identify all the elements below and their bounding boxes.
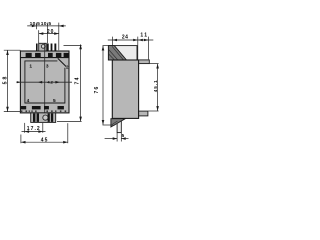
dimension 5 stem bottom xyxy=(105,133,129,142)
horizontal centerline xyxy=(16,81,72,83)
side view upper block xyxy=(108,46,137,60)
center arrow left inner xyxy=(38,81,42,84)
svg-text:76: 76 xyxy=(94,86,100,94)
front view body xyxy=(20,51,69,113)
svg-text:74: 74 xyxy=(75,76,81,84)
center arrow right inner xyxy=(55,81,59,84)
front bottom mounting tab xyxy=(31,113,56,123)
svg-text:17.2: 17.2 xyxy=(27,126,41,132)
bottom tab ribs xyxy=(33,113,53,122)
front chamfer diagonal xyxy=(58,58,66,66)
front inner face outline xyxy=(25,61,65,103)
side view upper terminal xyxy=(139,60,150,64)
svg-text:11: 11 xyxy=(140,33,148,39)
dimension 76 side height xyxy=(94,46,113,125)
svg-text:10.5: 10.5 xyxy=(41,21,52,27)
dimension 45 bottom xyxy=(21,123,68,143)
svg-text:4: 4 xyxy=(27,98,30,104)
svg-text:3: 3 xyxy=(46,63,49,69)
svg-text:5: 5 xyxy=(122,133,125,138)
svg-text:1: 1 xyxy=(29,63,32,69)
front view cap separation line xyxy=(20,57,69,59)
front bottom tick row xyxy=(21,110,66,112)
side view bottom stem xyxy=(117,119,121,133)
dimension 20 top xyxy=(39,29,59,43)
front bottom terminal pads xyxy=(21,106,64,109)
svg-text:45: 45 xyxy=(41,138,49,144)
dimension 24 side top xyxy=(108,35,154,60)
svg-text:10.5: 10.5 xyxy=(30,21,41,27)
svg-text:5: 5 xyxy=(53,98,56,104)
svg-text:20: 20 xyxy=(47,29,55,35)
dimension 58 left xyxy=(3,50,21,111)
front top terminal pads xyxy=(26,53,69,57)
front top pins xyxy=(36,44,56,52)
dimension 11 side top xyxy=(138,33,148,60)
side view lower terminal xyxy=(139,111,148,116)
dimension 74 right of front view xyxy=(57,44,82,121)
side view top flange hatched wedge xyxy=(108,46,126,60)
bottom tab hole xyxy=(43,115,48,120)
svg-text:24: 24 xyxy=(122,35,129,41)
dimension 17.2 bottom xyxy=(22,123,46,133)
front top tab hole xyxy=(41,45,45,49)
svg-text:4.2: 4.2 xyxy=(47,79,53,84)
center arrow left outer xyxy=(17,81,21,83)
dimension 45.1 side right xyxy=(148,64,159,111)
side view main body xyxy=(112,60,138,118)
front top mounting tab xyxy=(39,43,47,51)
vertical centerline xyxy=(44,44,46,123)
dimension 10.5 10.5 top xyxy=(27,21,66,50)
side view bottom hatched wedge xyxy=(111,119,125,127)
svg-text:45.1: 45.1 xyxy=(153,79,158,92)
svg-text:58: 58 xyxy=(3,75,9,85)
